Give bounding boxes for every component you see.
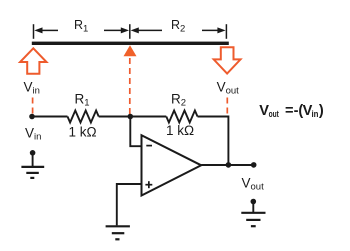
wire noninverting input to ground [117, 184, 142, 225]
svg-text:R1: R1 [74, 18, 88, 35]
ground (output) [241, 199, 265, 227]
dimension tick right [225, 24, 227, 39]
Vin hollow up arrow [20, 48, 46, 73]
dashed probe line middle [129, 58, 131, 114]
dimension tick middle [129, 24, 131, 39]
dimension tick left [33, 24, 35, 39]
minus sign [146, 145, 152, 147]
node junction inverting input [128, 114, 134, 120]
node Vin [29, 114, 35, 120]
svg-text:out: out [269, 109, 280, 120]
dashed probe line right [226, 98, 228, 114]
svg-text:R1: R1 [75, 91, 90, 108]
svg-text:Vin: Vin [25, 125, 41, 142]
node feedback/output [226, 162, 232, 168]
dimension arrow R2 right [202, 27, 226, 33]
node Vout terminal [251, 162, 257, 168]
wire R2 to output node [198, 117, 229, 165]
wire output [201, 164, 254, 166]
ground (input) [21, 150, 44, 178]
svg-text:1 kΩ: 1 kΩ [166, 123, 194, 138]
svg-text:R2: R2 [171, 18, 185, 35]
filled orange up arrow (middle) [124, 45, 137, 56]
svg-text:in: in [312, 109, 319, 120]
equation Vout = -(Vin) [259, 103, 324, 120]
svg-text:Vout: Vout [217, 79, 240, 96]
svg-text:=: = [285, 103, 294, 119]
svg-text:1 kΩ: 1 kΩ [69, 125, 97, 140]
plus sign [145, 181, 152, 188]
wire R1 to R2 [99, 116, 167, 118]
wire junction to inverting input [130, 117, 141, 147]
svg-text:R2: R2 [171, 91, 186, 108]
dimension arrow R2 left [131, 27, 162, 33]
dimension arrow R1 left [34, 27, 58, 33]
svg-text:): ) [319, 103, 324, 119]
bus bar [32, 42, 229, 45]
dashed probe line left [32, 98, 34, 114]
ground (op-amp) [106, 226, 130, 239]
svg-text:Vin: Vin [24, 79, 40, 96]
resistor R1 [68, 111, 99, 123]
wire Vin node to R1 [32, 116, 68, 118]
Vout hollow down arrow [214, 47, 241, 73]
resistor R2 [166, 111, 197, 123]
op-amp U1 [142, 135, 202, 195]
svg-text:Vout: Vout [242, 175, 265, 192]
dimension arrow R1 right [104, 27, 129, 33]
